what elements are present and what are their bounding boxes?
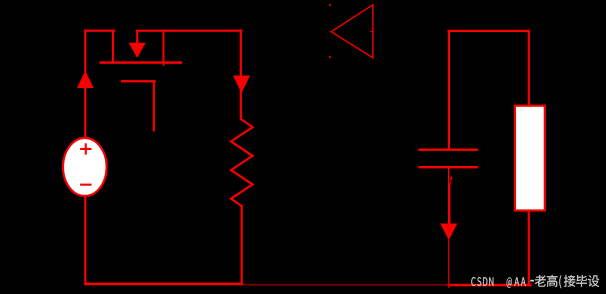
wire: resistor bottom lead [241, 205, 243, 285]
wire: load bottom lead vertical [528, 210, 530, 287]
voltage source V1: ellipse body [63, 138, 107, 196]
wire: top horizontal segment B [136, 30, 242, 32]
node: small notch mark right of capacitor lead [450, 177, 452, 180]
arrow: into transistor plate (head) [129, 43, 146, 58]
wire: capacitor top lead vertical [448, 30, 450, 149]
node: pin dot top left of triangle [329, 4, 331, 6]
transistor Q1: gate horizontal lead [121, 80, 156, 82]
wire: top right horizontal [448, 30, 530, 32]
watermark text: CSDN @AA-laogao(jiebishe [471, 275, 599, 288]
wire: bottom horizontal bright right segment [448, 284, 532, 287]
node: small tick on triangle right edge [370, 31, 373, 32]
arrow: into transistor plate (shaft) [136, 31, 138, 44]
resistor R1: zigzag body [231, 120, 253, 207]
transistor Q1: channel plate line [100, 61, 183, 64]
capacitor C1: top plate [418, 149, 478, 151]
node: pin dot bottom left of triangle [329, 56, 331, 58]
wire: capacitor lower lead thin upper part [448, 168, 449, 183]
wire: transistor tap 1 vertical [112, 30, 114, 64]
voltage source V1: plus sign [80, 148, 91, 150]
resistor RL: white rectangle load body [515, 106, 545, 211]
wire: load top lead vertical [528, 30, 530, 107]
wire: bottom horizontal dark middle segment [243, 284, 448, 286]
arrow: current direction down below capacitor [440, 224, 457, 241]
wire: right vertical from top wire to resistor [240, 30, 242, 121]
wire: thin lead from arrow to bottom wire [448, 240, 449, 288]
wire: bottom horizontal bright left segment [84, 283, 243, 286]
voltage source V1: minus sign [80, 184, 91, 186]
wire: transistor tap 2 vertical [163, 30, 165, 66]
arrow: current direction down on right vertical [233, 76, 250, 94]
wire: left vertical source lead [84, 30, 86, 286]
watermark text: hyphen dash [530, 280, 534, 282]
wire: capacitor lower lead (arrow shaft) [448, 183, 450, 224]
transistor Q1: gate vertical lead [153, 80, 155, 131]
arrow: current direction up on left wire [77, 71, 94, 88]
wire: top horizontal segment A [84, 30, 115, 32]
op-amp U1: triangle outline pointing left [331, 5, 373, 58]
capacitor C1: bottom plate [418, 166, 478, 168]
